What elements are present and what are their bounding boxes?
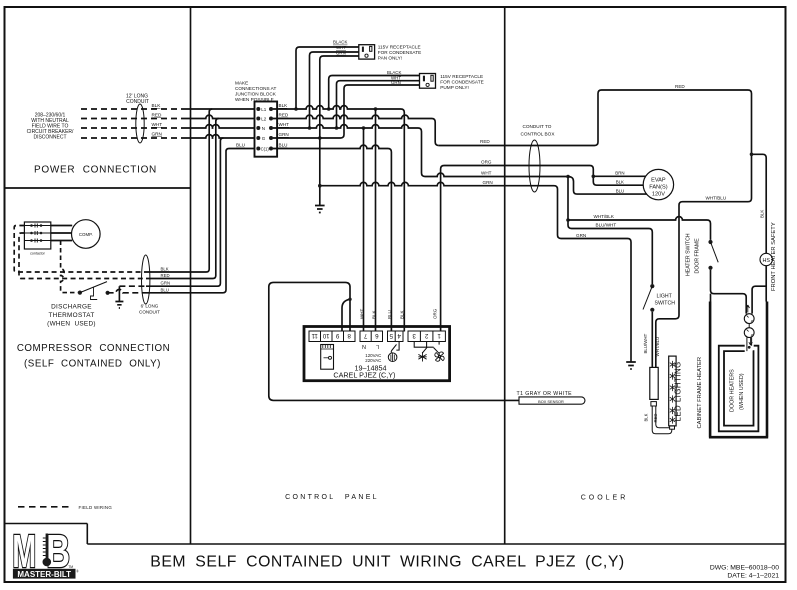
wire to cabinet heater left [710,294,712,302]
wire GRN from ground (dashed) [119,285,146,287]
svg-text:5: 5 [389,332,393,339]
wire branch to heater safety [752,154,767,253]
wire WHT field (dashed) [81,127,187,129]
labels receptacle1 wires [333,40,347,56]
svg-text:JUNCTION BLOCK: JUNCTION BLOCK [235,92,277,97]
svg-text:COOLER: COOLER [581,495,629,502]
svg-text:7: 7 [363,332,367,339]
conduit symbol to control box [529,140,540,192]
svg-text:GRN: GRN [483,180,493,185]
svg-text:G: G [262,136,266,141]
wire GRN bus (block to receptacle 2 riser) [273,135,344,139]
svg-text:CONTROL BOX: CONTROL BOX [521,132,556,137]
svg-text:POWER CONNECTION: POWER CONNECTION [34,165,157,176]
svg-text:WHT: WHT [481,171,492,176]
svg-text:CONDUIT: CONDUIT [126,99,149,105]
column divider left [190,7,192,544]
wire BLK comp riser [146,109,212,272]
wire GRN long run to cooler [320,182,631,362]
wire branch to door heater connector right [752,286,766,313]
svg-text:DOOR HEATERS: DOOR HEATERS [730,369,736,412]
receptacle J1 (condensate pan) [359,45,375,59]
svg-text:COMP.: COMP. [79,232,93,237]
svg-text:BLK: BLK [161,266,169,271]
svg-text:DISCONNECT: DISCONNECT [33,135,66,141]
ground (cooler GRN) [626,362,636,369]
svg-text:ORG: ORG [432,308,437,319]
terminal strip 5-1 [388,331,404,342]
wires into door heater loop [747,338,752,352]
wire RED field (dashed) [81,118,187,120]
wire WHT bus (block to cooler riser) [273,125,425,177]
svg-text:FIELD WIRING: FIELD WIRING [79,505,113,510]
svg-text:9: 9 [335,332,339,339]
heater safety HS [760,253,772,265]
svg-text:DATE: 4–1–2021: DATE: 4–1–2021 [727,573,779,580]
svg-text:LED LIGHTING: LED LIGHTING [674,361,683,421]
wire receptacle2 GRN riser [344,85,420,135]
labels fan wires [615,171,624,194]
door heaters loop outer [719,346,759,432]
svg-text:CONNECTIONS AT: CONNECTIONS AT [235,86,276,91]
wire receptacle1 GRN riser [320,56,359,138]
probe connector [321,345,334,370]
svg-text:HEATER SWITCH: HEATER SWITCH [685,233,691,276]
block output labels [279,103,290,148]
svg-text:CABINET FRAME HEATER: CABINET FRAME HEATER [697,357,703,429]
compressor motor COMP [72,220,101,249]
N / L marks [362,343,379,349]
relay contact defrost (T3/T2) [414,342,427,354]
svg-text:ORG: ORG [481,160,492,165]
svg-text:DOOR FRAME: DOOR FRAME [695,238,701,274]
svg-text:C(1): C(1) [261,147,270,152]
svg-text:11: 11 [311,332,318,339]
svg-text:GRN: GRN [161,281,171,286]
svg-text:PUMP ONLY!: PUMP ONLY! [440,85,468,90]
terminal strip 11-8 [309,331,445,342]
svg-text:GRN: GRN [576,233,586,238]
svg-text:BRN: BRN [615,171,624,176]
svg-text:T1 GRAY OR WHITE: T1 GRAY OR WHITE [517,391,573,397]
svg-text:BLK: BLK [279,103,289,108]
svg-text:N: N [362,343,366,349]
svg-text:FOR CONDENSATE: FOR CONDENSATE [440,79,483,84]
logo MASTER-BILT bar [13,569,76,579]
icon fan [435,352,444,361]
svg-text:RED: RED [279,113,289,118]
svg-text:6: 6 [375,332,379,339]
svg-text:L: L [376,343,379,349]
wire receptacle2 BLACK riser [329,76,420,110]
wires contactor to COMP [51,226,72,241]
conduit symbol 6ft [142,255,150,304]
svg-text:BLK: BLK [759,210,764,218]
wire BRN to fan [593,175,646,177]
svg-text:BLU: BLU [616,188,625,193]
wire WHT drop to terminal 7 [363,128,365,332]
light switch [650,284,654,288]
wire WHT down to light/heater circuits [568,177,652,285]
thermostat caption [47,304,96,328]
svg-text:TM: TM [68,565,73,569]
svg-text:(WHEN USED): (WHEN USED) [739,373,745,410]
svg-text:RED: RED [480,139,490,144]
logo box right [86,524,88,545]
svg-text:COMPRESSOR CONNECTION: COMPRESSOR CONNECTION [17,343,170,354]
wire RED compressor loop (dashed) [19,233,146,279]
svg-text:FOR CONDENSATE: FOR CONDENSATE [378,50,421,55]
svg-text:CONDUIT TO: CONDUIT TO [523,124,552,129]
section title COMPRESSOR CONNECTION [17,343,170,370]
box sensor probe T1 [519,397,585,404]
svg-text:EVAP: EVAP [651,178,666,184]
svg-text:LIGHT: LIGHT [657,294,673,300]
wire box sensor loop (terminals 8,9 to probe) [269,282,519,400]
wire contactor coil to thermostat (dashed, hops BLK and RED) [61,241,78,293]
wire receptacle2 WHT riser [337,81,420,128]
wire BLU bus (block to drop T5) [273,145,392,331]
wire BLK solid to block [187,108,255,110]
contactor K1 [24,222,50,249]
svg-text:220VAC: 220VAC [365,358,381,363]
discharge thermostat switch [78,291,82,295]
LED lamps [670,361,675,424]
svg-text:CONTROL PANEL: CONTROL PANEL [285,494,379,501]
svg-text:BLACK: BLACK [333,40,347,45]
svg-text:DISCHARGE: DISCHARGE [51,304,92,311]
column divider right [504,7,506,544]
svg-text:FAN(S): FAN(S) [649,185,667,191]
wire GRN solid to block [187,135,255,138]
terminal strip 7-6 [360,331,383,342]
wire RED solid to block [187,115,255,118]
controller CAREL PJEZ box [304,327,450,381]
svg-text:CAREL PJEZ (C,Y): CAREL PJEZ (C,Y) [333,370,395,379]
svg-text:THERMOSTAT: THERMOSTAT [48,312,94,319]
labels receptacle2 wires [387,70,401,85]
wire receptacle1 WHT riser [310,52,359,128]
svg-text:RED: RED [152,113,163,118]
svg-text:BLU: BLU [279,143,288,148]
svg-text:®: ® [76,570,79,574]
icon compressor out [388,353,397,362]
svg-text:SWITCH: SWITCH [655,301,676,307]
ground (junction) drop [315,138,325,213]
logo thermometer [46,534,48,559]
label 12' LONG CONDUIT [126,94,149,106]
door heater connectors [746,305,749,313]
wire WHT solid to block [187,125,255,128]
icon defrost [418,352,426,361]
svg-text:BEM SELF CONTAINED UNIT WIRING: BEM SELF CONTAINED UNIT WIRING CAREL PJE… [150,554,625,571]
junction block TB1 [255,102,278,157]
junction block note [235,81,277,103]
svg-text:BLU: BLU [236,143,245,148]
svg-text:BLK: BLK [643,413,648,421]
wires ballast to LED strip [652,406,672,434]
logo Master-Bilt MB [12,524,70,577]
svg-text:115V RECEPTACLE: 115V RECEPTACLE [440,74,483,79]
svg-text:10: 10 [322,332,329,339]
svg-text:GRN: GRN [336,50,346,55]
svg-text:BLU/WHT: BLU/WHT [596,223,617,228]
svg-text:(WHEN USED): (WHEN USED) [47,321,96,328]
svg-text:L2: L2 [261,117,267,122]
wire receptacle1 BLACK riser [296,47,359,109]
junction dots [294,107,377,187]
wire branch to terminal 9 [342,299,350,331]
svg-text:4: 4 [397,332,401,339]
wire WHT cooler run [425,173,568,176]
svg-text:WHT: WHT [152,122,163,127]
svg-text:MAKE: MAKE [235,81,248,86]
svg-text:RED: RED [653,414,658,423]
svg-text:DWG: MBE–60018–00: DWG: MBE–60018–00 [710,565,779,572]
svg-text:WHT/BLK: WHT/BLK [594,214,615,219]
svg-text:N: N [262,126,265,131]
relay contact comp (T5/T4) [391,342,399,353]
wire RED cooler run [439,90,752,367]
drawing number [710,565,779,580]
cabinet frame heater element [709,302,768,438]
svg-text:WHT/BLU: WHT/BLU [655,337,660,357]
svg-text:(SELF CONTAINED ONLY): (SELF CONTAINED ONLY) [24,359,161,370]
svg-text:BOX SENSOR: BOX SENSOR [538,399,564,404]
terminal numbers (upside down) [311,332,441,339]
wire branch fan BLU [568,177,647,195]
svg-text:BLK: BLK [616,180,624,185]
evaporator fan [643,169,673,199]
svg-text:GRN: GRN [279,132,289,137]
svg-text:PAN ONLY!: PAN ONLY! [378,55,402,60]
LED strip [669,356,676,426]
svg-text:BLU: BLU [161,287,169,292]
conduit symbol 12ft [136,104,144,143]
caption receptacle1 [378,44,421,60]
svg-text:FRONT HEATER SAFETY: FRONT HEATER SAFETY [771,222,777,291]
ground (compressor) [115,286,123,308]
wire HS to cabinet heater right [765,266,767,302]
wire BLU from thermostat (hops ground wire) [108,289,146,292]
svg-text:RED: RED [161,273,170,278]
door heaters loop inner [724,351,754,426]
svg-text:MASTER-BILT: MASTER-BILT [17,570,71,579]
svg-text:RED: RED [675,84,685,89]
wire WHT/BLK to heater switch [568,217,711,240]
svg-text:BLU/WHT: BLU/WHT [643,333,648,353]
svg-text:BLU: BLU [387,310,392,319]
svg-text:BLACK: BLACK [387,70,401,75]
svg-text:L1: L1 [261,107,267,112]
wire BLU comp riser to junction block [146,149,255,293]
svg-text:BLK: BLK [152,103,162,108]
caption receptacle2 [440,74,483,90]
wire RED comp riser [146,119,219,279]
label 6' LONG CONDUIT [139,304,160,315]
120/220VAC [365,353,381,363]
label CONDUIT TO CONTROL BOX [521,124,556,137]
power section divider [5,187,191,189]
power feed note text [27,113,74,141]
svg-text:contactor: contactor [30,252,46,256]
svg-text:2: 2 [424,332,428,339]
wire BLK compressor loop (dashed) [14,226,146,273]
svg-text:115V RECEPTACLE: 115V RECEPTACLE [378,44,421,49]
wire BLK bus (block to drop T4) [273,106,404,332]
svg-text:GRN: GRN [391,80,401,85]
svg-text:8: 8 [347,332,351,339]
wire RED bus (block to cooler riser) [273,115,439,145]
svg-text:WHT: WHT [359,309,364,319]
relay contact fan (T1) [427,342,440,354]
legend field wiring [18,506,72,508]
svg-text:WHT/BLU: WHT/BLU [706,196,727,201]
svg-text:CONDUIT: CONDUIT [139,310,160,315]
svg-text:120V: 120V [652,192,665,198]
svg-text:BLK: BLK [371,310,376,319]
wire BLK drop to terminal 6 [375,109,377,332]
wire BLK field (dashed) [81,108,187,110]
heater switch [708,240,712,244]
receptacle J2 (condensate pump) [420,74,436,89]
svg-text:6' LONG: 6' LONG [141,304,159,309]
svg-text:3: 3 [412,332,416,339]
svg-text:HS: HS [762,258,770,264]
title strip top line [87,543,785,545]
LED ballast [650,367,658,399]
svg-text:1: 1 [437,332,441,339]
svg-text:BLK: BLK [400,310,405,319]
svg-text:GRN: GRN [152,132,162,137]
wire ORG down to fan BRN/BLK [593,173,643,185]
logo box top [5,523,88,525]
svg-text:WHT: WHT [279,122,290,127]
wire GRN field (dashed) [81,137,187,139]
labels above control panel (rotated) [359,308,437,319]
wire ORG riser from terminal 1 [441,166,594,332]
wire GRN comp riser [146,138,223,286]
wire heater switch down [711,270,747,314]
